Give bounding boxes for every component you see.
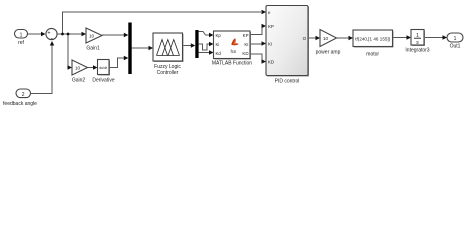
svg-text:fcn: fcn — [231, 49, 237, 54]
svg-text:10: 10 — [75, 65, 81, 70]
svg-text:Ki: Ki — [216, 42, 220, 47]
svg-text:KI: KI — [268, 42, 272, 47]
svg-text:KI: KI — [244, 42, 248, 47]
svg-text:2: 2 — [22, 92, 25, 98]
svg-text:KD: KD — [242, 51, 248, 56]
svg-text:Derivative: Derivative — [92, 78, 114, 84]
svg-text:1: 1 — [20, 32, 23, 38]
svg-text:tf(240,[1 46 155]): tf(240,[1 46 155]) — [355, 37, 391, 42]
svg-text:KD: KD — [268, 60, 274, 65]
svg-text:-: - — [51, 36, 53, 42]
svg-text:Kp: Kp — [216, 33, 222, 38]
svg-text:Gain2: Gain2 — [72, 78, 86, 84]
svg-text:ref: ref — [18, 40, 24, 46]
svg-text:motor: motor — [366, 52, 379, 58]
svg-text:Kd: Kd — [216, 51, 222, 56]
svg-text:PID control: PID control — [275, 79, 300, 85]
svg-text:Out1: Out1 — [450, 44, 461, 50]
svg-text:10: 10 — [89, 33, 95, 38]
svg-text:du/dt: du/dt — [99, 66, 107, 70]
svg-text:power amp: power amp — [316, 50, 341, 56]
svg-text:Controller: Controller — [157, 70, 179, 76]
svg-text:Gain1: Gain1 — [86, 46, 100, 52]
svg-text:MATLAB Function: MATLAB Function — [212, 61, 252, 67]
svg-text:feedback angle: feedback angle — [3, 101, 37, 107]
svg-text:1: 1 — [454, 36, 457, 42]
svg-text:O: O — [303, 36, 307, 41]
svg-text:Integrator3: Integrator3 — [405, 48, 429, 54]
svg-text:KP: KP — [243, 33, 249, 38]
svg-text:10: 10 — [323, 36, 329, 41]
svg-text:KP: KP — [268, 24, 274, 29]
